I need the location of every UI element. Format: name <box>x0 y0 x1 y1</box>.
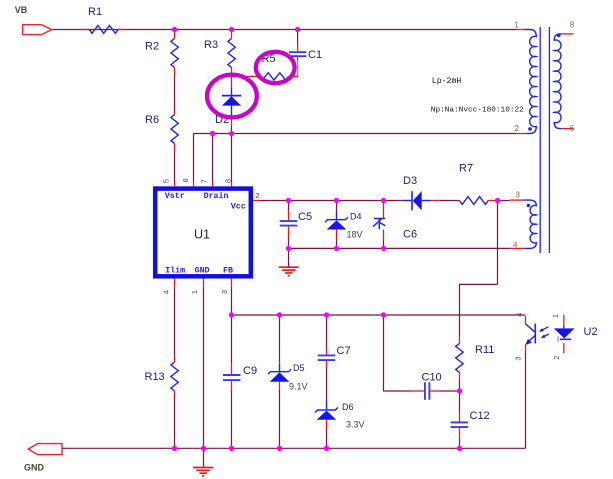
label C9 <box>243 365 257 377</box>
winding pin8 stub <box>561 33 573 35</box>
transformer pin number 4 <box>513 240 518 249</box>
transformer pin number 1 <box>514 20 519 29</box>
wire D4 column <box>336 201 338 249</box>
U1 pin number 6 <box>181 178 190 182</box>
wire C6 column lower <box>383 240 385 248</box>
U1 pin number 5 <box>162 179 171 183</box>
resistor R6 <box>171 109 178 151</box>
resistor R3 <box>228 30 235 77</box>
svg-text:R3: R3 <box>204 39 218 51</box>
U1 pin number 3 <box>220 290 229 294</box>
svg-text:7: 7 <box>199 179 208 183</box>
wire C10 left branch <box>384 315 460 391</box>
U2 pin number 3 <box>513 356 522 360</box>
svg-text:D5: D5 <box>293 363 305 373</box>
U1 pin number 8 <box>223 179 232 183</box>
winding pin3 stub <box>510 199 524 201</box>
svg-text:8: 8 <box>570 20 575 29</box>
wire secondary lower rail to winding pin4 <box>289 247 510 249</box>
svg-text:C10: C10 <box>422 372 442 384</box>
svg-text:C1: C1 <box>308 49 322 61</box>
transformer pin number 2 <box>515 124 520 133</box>
capacitor C9 <box>223 363 241 391</box>
svg-text:C9: C9 <box>243 365 257 377</box>
label C12 <box>470 410 490 422</box>
capacitor C12 <box>451 412 469 439</box>
U1 pin number 2 <box>255 191 259 200</box>
label 9.1V <box>289 382 308 392</box>
wire R2 column net segments <box>174 75 176 181</box>
svg-text:1: 1 <box>190 290 199 294</box>
winding pin1 stub <box>516 29 525 31</box>
zener diode D4 <box>325 211 348 239</box>
wire pin6 riser <box>193 134 195 182</box>
svg-text:D4: D4 <box>350 212 362 222</box>
capacitor C6 symbol <box>373 201 385 241</box>
svg-text:Ilim: Ilim <box>165 266 185 276</box>
resistor R13 <box>171 357 178 397</box>
transformer label Lp <box>432 77 462 86</box>
label C10 <box>422 372 442 384</box>
svg-text:6: 6 <box>570 124 575 133</box>
svg-text:4: 4 <box>162 290 171 294</box>
transformer primary winding <box>525 30 536 134</box>
svg-text:C5: C5 <box>298 211 312 223</box>
annotation circle around R5 <box>256 52 295 83</box>
svg-text:3: 3 <box>516 190 521 199</box>
wire feedback jog <box>460 284 498 336</box>
U1 pin stubs bottom and vcc <box>175 201 261 287</box>
wire output feedback vertical <box>497 201 499 285</box>
capacitor C7 <box>318 349 336 368</box>
zener diode D5 <box>268 361 291 390</box>
label C1 <box>308 49 322 61</box>
label U2 <box>584 326 598 338</box>
diode D2 <box>222 76 241 126</box>
label R6 <box>145 114 159 126</box>
wire GND pin column <box>203 286 205 448</box>
wire FB bus <box>232 314 526 316</box>
svg-text:C7: C7 <box>337 345 351 357</box>
wire C1 column top <box>297 30 299 45</box>
label R3 <box>204 39 218 51</box>
capacitor C1 <box>289 44 307 60</box>
svg-text:FB: FB <box>223 267 233 276</box>
transformer aux winding <box>524 200 537 248</box>
svg-text:R11: R11 <box>475 344 494 356</box>
svg-text:R6: R6 <box>145 114 159 126</box>
port GND <box>24 444 62 473</box>
svg-text:GND: GND <box>24 462 45 472</box>
wire C5 column <box>288 201 290 249</box>
label C5 <box>298 211 312 223</box>
wire opto emitter column <box>525 354 527 449</box>
svg-text:D3: D3 <box>403 175 417 187</box>
ground symbol at C5 <box>279 267 299 276</box>
wire top rail VB to transformer pin1 <box>52 29 516 31</box>
U2 pin number 2 <box>552 356 561 360</box>
optocoupler U2 transistor <box>525 316 535 354</box>
svg-text:3: 3 <box>513 356 522 360</box>
winding pin2 stub <box>516 133 526 135</box>
label R5 <box>262 53 276 65</box>
resistor R11 <box>456 336 463 381</box>
U2 pin number 1 <box>551 314 560 318</box>
svg-text:U1: U1 <box>194 227 210 241</box>
svg-text:1: 1 <box>551 314 560 318</box>
resistor R1 <box>81 26 125 34</box>
resistor R7 <box>459 197 497 205</box>
svg-text:D6: D6 <box>342 402 354 412</box>
winding pin4 stub <box>510 247 524 249</box>
svg-text:Vstr: Vstr <box>165 192 185 201</box>
wire R11 bottom to C10 junction <box>459 381 461 391</box>
label D6 <box>342 402 354 412</box>
label D2 <box>215 114 229 126</box>
svg-text:R7: R7 <box>459 163 473 175</box>
wire R3 D2 column segment to drain bus <box>231 126 233 134</box>
label 18V <box>347 230 363 240</box>
svg-text:1: 1 <box>514 20 519 29</box>
svg-text:4: 4 <box>513 240 518 249</box>
label R11 <box>475 344 494 356</box>
zener diode D6 <box>315 401 338 430</box>
svg-text:3.3V: 3.3V <box>346 420 365 430</box>
winding pin6 stub <box>561 128 573 130</box>
label R2 <box>145 41 159 53</box>
svg-text:R13: R13 <box>145 371 165 383</box>
label R1 <box>88 6 102 18</box>
capacitor C10 <box>412 382 439 400</box>
label D3 <box>403 175 417 187</box>
wire C7 D6 column <box>326 315 328 448</box>
ground symbol bottom <box>193 468 213 476</box>
svg-text:GND: GND <box>195 267 210 276</box>
wire ground symbol stem <box>203 448 205 467</box>
wire pin8 riser <box>231 134 233 182</box>
svg-text:Lp-2mH: Lp-2mH <box>432 77 462 86</box>
svg-text:3: 3 <box>220 290 229 294</box>
wire bottom ground rail <box>62 447 526 449</box>
transformer pin number 8 <box>570 20 575 29</box>
wire drain bus to transformer pin2 <box>194 133 517 135</box>
wire pin7 riser <box>212 134 214 182</box>
svg-text:2: 2 <box>515 124 520 133</box>
annotation circle around D2 <box>207 75 257 118</box>
wire C9 column <box>231 315 233 448</box>
svg-text:C12: C12 <box>470 410 490 422</box>
U1 pin number 7 <box>199 179 208 183</box>
svg-text:4: 4 <box>515 313 524 317</box>
svg-text:2: 2 <box>552 356 561 360</box>
transformer core <box>540 27 549 253</box>
wire C5 gnd branch <box>288 248 290 266</box>
resistor R5 <box>232 73 298 80</box>
svg-text:5: 5 <box>162 179 171 183</box>
label R13 <box>145 371 165 383</box>
transformer label Np <box>431 107 524 115</box>
svg-text:Drain: Drain <box>204 191 229 201</box>
U1 pin number 1 <box>190 290 199 294</box>
svg-text:8: 8 <box>223 179 232 183</box>
transformer pin number 6 <box>570 124 575 133</box>
label D4 <box>350 212 362 222</box>
label D5 <box>293 363 305 373</box>
diode D3 <box>402 191 440 210</box>
label R7 <box>459 163 473 175</box>
U2 pin number 4 <box>515 313 524 317</box>
svg-text:U2: U2 <box>584 326 598 338</box>
wire C12 column <box>459 391 461 448</box>
optocoupler U2 led <box>554 315 575 354</box>
wire FB pin column <box>231 286 233 315</box>
resistor R2 <box>171 30 178 76</box>
wire D5 column <box>279 315 281 448</box>
op-amp U1 box <box>155 189 251 277</box>
transformer pin number 3 <box>516 190 521 199</box>
svg-text:R2: R2 <box>145 41 159 53</box>
wire grey segment C1 to R5 <box>297 60 299 76</box>
svg-text:9.1V: 9.1V <box>289 382 308 392</box>
svg-text:Np:Na:Nvcc-180:10:22: Np:Na:Nvcc-180:10:22 <box>431 107 524 115</box>
svg-text:C6: C6 <box>403 229 417 241</box>
svg-text:VB: VB <box>15 5 28 15</box>
U1 pin number 4 <box>162 290 171 294</box>
node junction dots <box>172 27 500 451</box>
optocoupler U2 light arrows <box>539 327 549 338</box>
label C7 <box>337 345 351 357</box>
port VB <box>15 5 52 34</box>
wire vcc bus U1 to winding pin3 <box>261 200 510 202</box>
capacitor C5 <box>280 210 298 237</box>
svg-text:6: 6 <box>181 178 190 182</box>
label C6 <box>403 229 417 241</box>
label 3.3V <box>346 420 365 430</box>
svg-text:18V: 18V <box>347 230 363 240</box>
transistor U1 pin stubs top <box>175 181 232 186</box>
svg-text:Vcc: Vcc <box>231 203 246 212</box>
svg-text:R1: R1 <box>88 6 102 18</box>
svg-text:2: 2 <box>255 191 259 200</box>
wire Ilim R13 column <box>174 286 176 448</box>
transformer secondary winding <box>554 33 561 128</box>
